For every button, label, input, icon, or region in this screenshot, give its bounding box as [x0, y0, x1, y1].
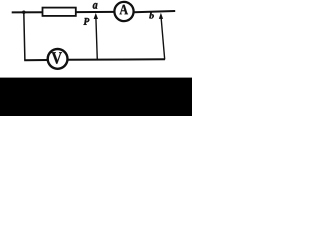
sliding contact arrow at node a [94, 13, 98, 60]
node junction left [22, 11, 25, 14]
wire bottom-right segment [68, 58, 165, 61]
node b label [149, 12, 154, 18]
resistor R [43, 8, 76, 16]
black band [0, 78, 192, 116]
voltmeter U2 circle [48, 49, 68, 69]
wire top-left segment [12, 11, 43, 13]
voltmeter label V [52, 52, 63, 64]
node P label [84, 18, 90, 25]
sliding contact arrow at node b [159, 13, 165, 60]
wire bottom-left segment [24, 59, 47, 61]
wire left vertical [24, 12, 25, 60]
ammeter U1 circle [114, 2, 133, 21]
ammeter label A [120, 5, 129, 15]
wire resistor-to-ammeter [76, 11, 114, 13]
node a label [93, 3, 98, 9]
wire ammeter-to-right-end [134, 11, 175, 12]
